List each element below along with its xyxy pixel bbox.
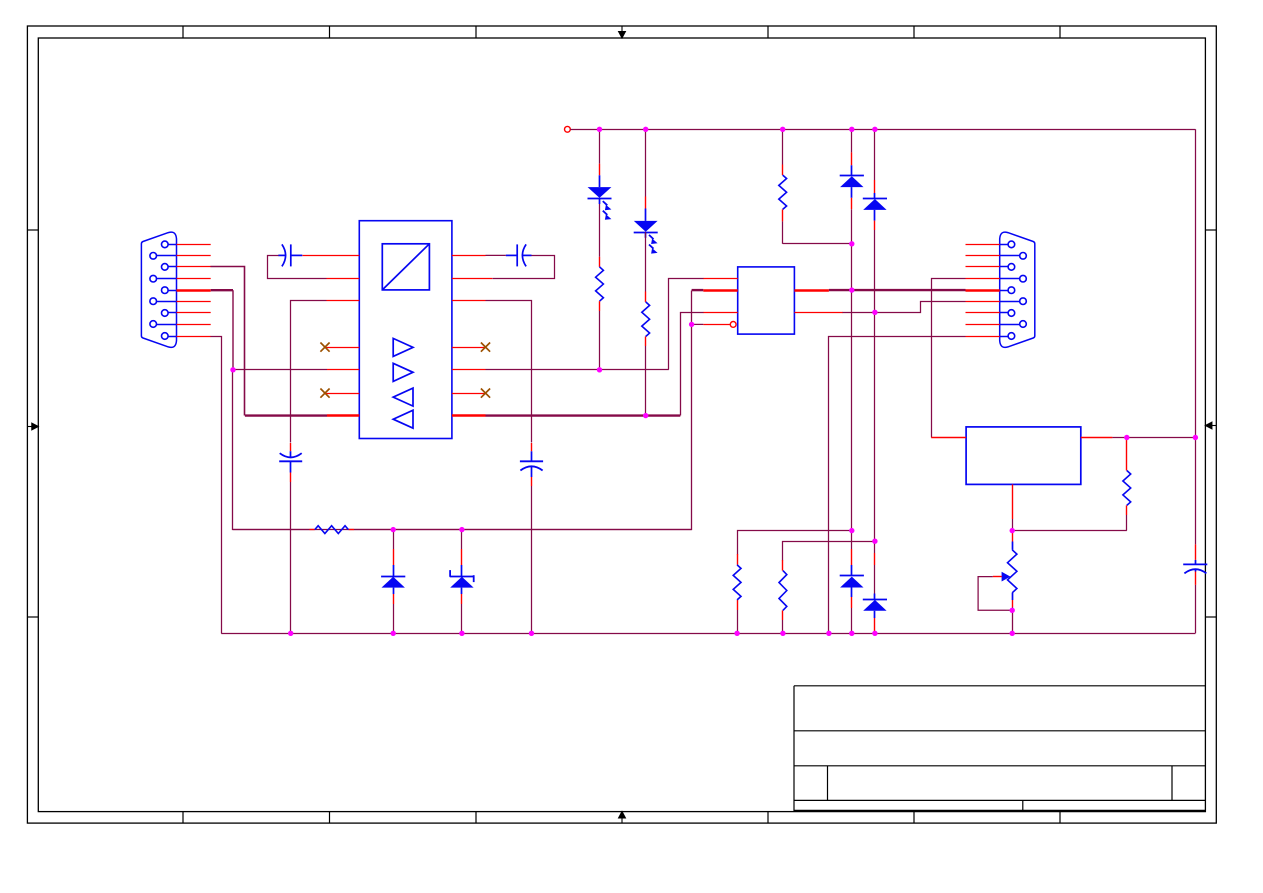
capacitor C3: [279, 453, 302, 461]
wire thick bus left: [245, 414, 327, 416]
wire R6 to rail: [782, 620, 784, 633]
wire D6 top lead: [874, 129, 876, 198]
diode D3: [381, 577, 405, 588]
potentiometer RV1: [1008, 550, 1017, 593]
wire y529 left: [233, 529, 310, 531]
wire LED2 to R4: [645, 232, 647, 302]
op-amp/transceiver U1 body: [359, 221, 452, 439]
capacitor C4 leads: [531, 443, 533, 486]
wire J1 pin3 down: [211, 267, 245, 416]
wire net RX row: [233, 369, 669, 371]
wire thick bus right: [486, 414, 681, 416]
wire x233 vertical: [232, 290, 234, 370]
wire D5 down: [851, 187, 853, 530]
capacitor C2: [506, 244, 532, 266]
wire D4 bottom lead: [461, 588, 463, 634]
wire bottom rail: [221, 633, 1195, 635]
resistor R4: [642, 302, 650, 337]
diode D8: [863, 600, 887, 611]
wire R4 down: [645, 337, 647, 416]
wire U1 right pin3 down: [486, 301, 532, 443]
connector J1 red pin stubs: [177, 245, 211, 337]
resistor R1: [315, 526, 349, 534]
wire D7 to rail: [851, 588, 853, 634]
resistor R6: [779, 571, 787, 611]
diode D5: [840, 176, 864, 188]
resistor R5 leads: [737, 554, 739, 610]
wire C1 loop: [268, 256, 327, 279]
wire R5 to rail: [737, 610, 739, 633]
resistor R2: [596, 267, 604, 301]
U2 inverted pin bubble: [730, 322, 736, 328]
module U3 body: [966, 427, 1081, 485]
connector J2 (right DB9) body: [1000, 232, 1035, 347]
wire y529 right: [354, 529, 692, 531]
wire U2 right pin3 to J2: [843, 302, 966, 313]
wire LED1 top lead: [599, 129, 601, 187]
no-connect X left pin 1: [320, 343, 329, 352]
capacitor C3 leads: [290, 443, 292, 482]
wire D8 top lead: [874, 541, 876, 599]
C6 bottom lead: [1195, 570, 1197, 634]
capacitor C4: [520, 461, 543, 470]
RV1 wiper arrow: [1002, 572, 1011, 582]
wire C2 loop: [486, 255, 555, 278]
wire D4 top lead: [461, 530, 463, 576]
no-connect X right pin 1: [481, 343, 490, 352]
zener diode D4: [450, 570, 474, 588]
wire top rail: [570, 129, 1195, 131]
diode D7: [840, 576, 864, 588]
wire U2 pin3 to bus corner: [681, 313, 704, 416]
wire U1 left pin3 down: [291, 301, 327, 443]
U1 driver/receiver triangles: [393, 338, 413, 428]
wire J2 pin9 to rail: [829, 337, 966, 634]
diode D6: [863, 199, 887, 210]
U1 charge-pump square symbol: [382, 244, 429, 290]
title block: [794, 686, 1205, 812]
wire R7 to pot net: [1012, 530, 1127, 532]
wire D5 top lead: [851, 129, 853, 175]
RV1 wiper wire: [978, 577, 1012, 611]
no-connect X right pin 2: [481, 389, 490, 398]
wire C4 to rail: [531, 486, 533, 633]
wire C3 to rail: [290, 482, 292, 633]
wire U2 pin1 to net: [669, 279, 704, 370]
U2 red pin stubs: [703, 279, 843, 325]
wire R3 top lead: [782, 129, 784, 175]
wire U2 pin2 thick: [692, 289, 704, 291]
wire LED1 to R2: [599, 204, 601, 267]
wire U3 right to riser: [1112, 437, 1195, 439]
wire D6 down: [874, 210, 876, 541]
wire D7 top lead: [851, 531, 853, 576]
wire R5 net: [738, 531, 852, 555]
wire R6 net: [783, 542, 875, 561]
connector J2 pin circles: [1000, 241, 1027, 339]
wire D8 to rail: [874, 611, 876, 634]
wire right riser: [1195, 129, 1197, 544]
C6 top lead: [1195, 544, 1197, 564]
wire U2 right pin2 thick bus to J2: [829, 289, 966, 291]
connector J1 pin circles: [150, 241, 177, 339]
resistor R6 leads: [782, 560, 784, 620]
resistor R1 leads: [310, 529, 355, 531]
wire U2 pin4 stub: [692, 323, 704, 325]
no-connect X left pin 2: [320, 389, 329, 398]
wire vertical x691: [233, 291, 692, 530]
wire D3 bottom lead: [393, 588, 395, 634]
wire LED2 top lead: [645, 129, 647, 221]
R7 top lead: [1126, 439, 1128, 471]
LED D2: [634, 221, 658, 254]
U3 right pin: [1081, 437, 1113, 439]
RV1 bottom lead: [1012, 593, 1014, 634]
connector J1 (left DB9) body: [141, 232, 176, 347]
resistor R3: [779, 175, 787, 209]
power terminal open circle: [565, 126, 571, 132]
R7 bottom lead: [1126, 505, 1128, 530]
connector J2 red pin stubs: [966, 245, 1000, 337]
wire J1 pin9 to bottom rail: [211, 337, 222, 634]
capacitor C1: [278, 244, 302, 266]
capacitor C6: [1183, 564, 1207, 573]
wire D3 top lead: [393, 530, 395, 576]
RV1 top lead: [1012, 531, 1014, 550]
U3 bottom pin: [1012, 484, 1014, 530]
wire R2 down: [599, 301, 601, 370]
U3 left pin: [931, 437, 966, 439]
resistor R5: [733, 565, 741, 600]
U1 red pin stubs: [303, 256, 493, 416]
wire J2 pin4 to U3: [932, 279, 966, 438]
wire R3 to D5 net: [783, 209, 852, 243]
LED D1: [588, 187, 612, 220]
resistor R7: [1123, 471, 1131, 506]
wire J1 pin5 thick: [211, 289, 233, 291]
isolator U2 body: [738, 267, 795, 334]
